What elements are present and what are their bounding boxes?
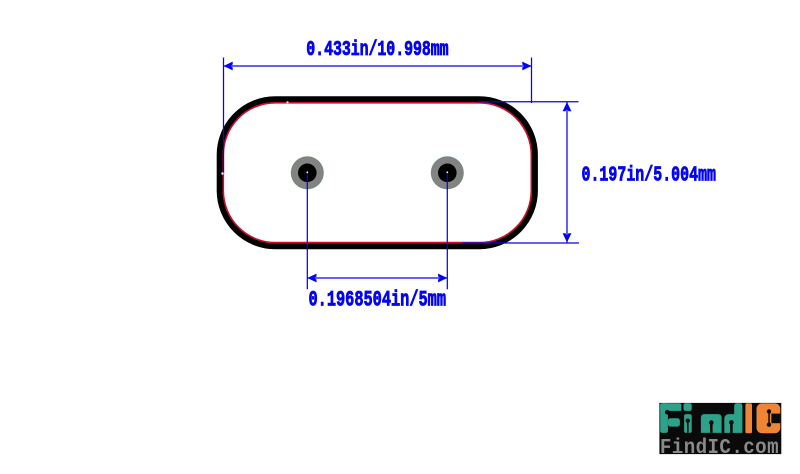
extension line right [531,58,533,104]
arrow left (top dim) [224,62,233,71]
dim text: 0.1968504in/5mm [309,287,447,313]
dimension: pad pitch [307,173,447,289]
svg-text:0.197in/5.004mm: 0.197in/5.004mm [582,163,717,187]
letter I (orange) [745,403,752,433]
extension line bottom [462,242,579,244]
FindIC logo [659,403,781,460]
dimension line [566,102,568,243]
i via dot and trace [686,419,690,433]
F via dot and trace [665,410,682,415]
component body outline (black) [220,99,535,246]
dim text: 0.197in/5.004mm [582,163,717,187]
letter i (teal) [684,403,692,433]
arrow right (pitch dim) [438,274,447,283]
dimension: body width [224,58,532,174]
svg-text:0.433in/10.998mm: 0.433in/10.998mm [306,38,448,62]
C opening notch [771,414,780,424]
svg-text:0.1968504in/5mm: 0.1968504in/5mm [309,287,447,313]
logo background box [659,403,781,454]
C via dots and trace [767,409,771,427]
extension line top [478,101,579,103]
letter F (teal) [660,403,681,433]
extension line left [223,58,225,174]
component body outline (red) [223,103,531,243]
dimension line [224,65,532,67]
letter d (teal) [724,403,742,433]
dimension line [307,277,447,279]
letter n (teal) [701,414,722,433]
arrow down (right dim) [563,233,572,242]
vertex marker dots (white) [221,172,223,174]
arrow right (top dim) [522,62,531,71]
extension line right (from pad 2 center) [446,173,448,289]
pad 2 [431,157,463,189]
dim text: 0.433in/10.998mm [306,38,448,62]
arrow up (right dim) [563,102,572,111]
dimension: body height (right) [462,102,579,243]
d via dot and trace [729,420,734,433]
svg-text:FindIC.com: FindIC.com [660,436,779,460]
pad 1 [291,157,323,189]
extension line left (from pad 1 center) [306,173,308,289]
logo url text [660,436,779,460]
arrow left (pitch dim) [307,274,316,283]
n via dot and trace [709,420,714,433]
letter C (orange) [757,403,781,433]
